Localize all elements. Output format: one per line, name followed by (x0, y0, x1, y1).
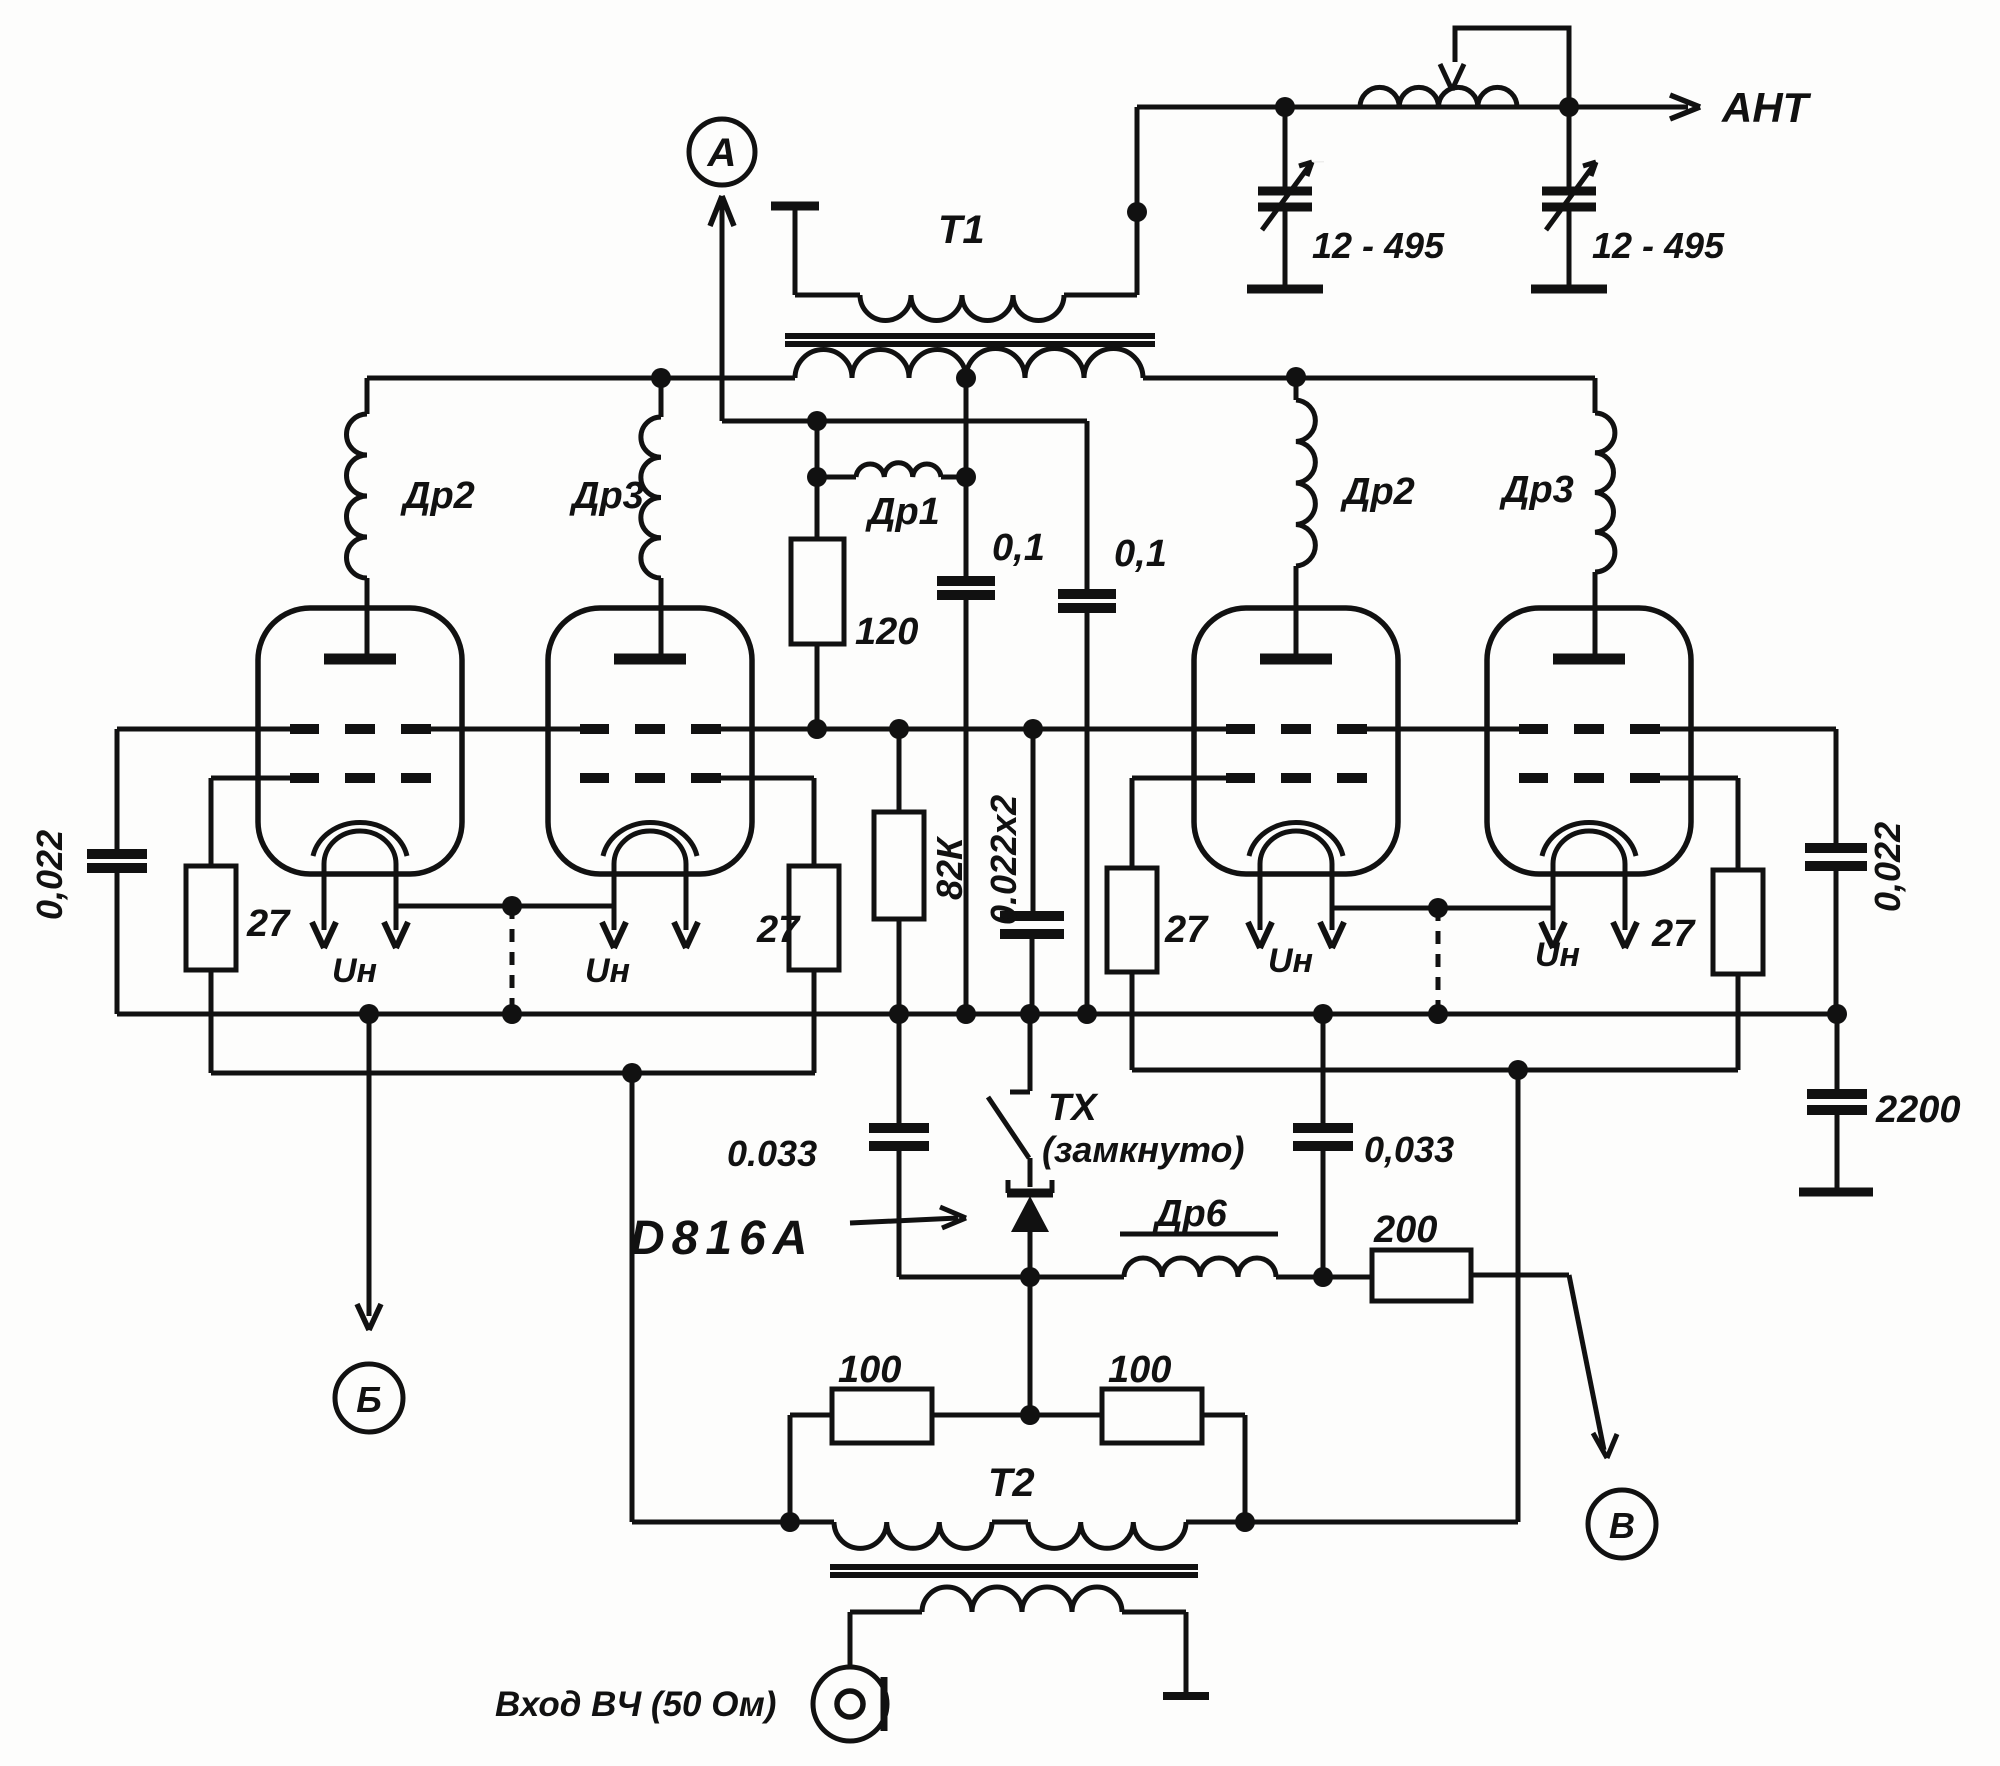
0,1 second value (1114, 533, 1167, 575)
svg-text:В: В (1609, 1505, 1635, 1546)
coax input connector (813, 1667, 887, 1741)
svg-text:100: 100 (838, 1349, 901, 1391)
svg-text:0,1: 0,1 (1114, 533, 1167, 575)
node T1 center tap (956, 368, 976, 388)
choke Dr1 (817, 463, 966, 477)
junction bus x1438 (1428, 1004, 1448, 1024)
svg-text:D816А: D816А (630, 1212, 814, 1265)
capacitor 0.033 left (869, 1014, 929, 1277)
T2 core (830, 1567, 1198, 1575)
tube V2 control grid (580, 724, 721, 734)
0.033 left value (727, 1133, 817, 1174)
wire cathode bus left (211, 1071, 815, 1076)
svg-text:Б: Б (356, 1379, 382, 1420)
svg-text:Uн: Uн (1268, 942, 1313, 980)
node antenna C1 tap (1275, 97, 1295, 117)
0,1 first value (992, 527, 1045, 569)
node cathode bus left (622, 1063, 642, 1083)
transformer T1 secondary winding (795, 349, 1143, 379)
choke Dr6 (1124, 1258, 1276, 1277)
svg-text:200: 200 (1373, 1209, 1437, 1251)
wire control grid bus (117, 727, 1836, 732)
resistor 100 #2 (1102, 1389, 1202, 1443)
TX label (1048, 1087, 1099, 1129)
node grid 82K (889, 719, 909, 739)
choke Dr2 left (347, 378, 368, 654)
node Dr3 left tap (651, 368, 671, 388)
D816A arrow (850, 1207, 966, 1228)
27 #2 value (756, 909, 801, 951)
Dr6 label (1120, 1193, 1278, 1235)
wire T2 right to riser (1245, 1070, 1518, 1522)
svg-text:Др6: Др6 (1152, 1193, 1228, 1235)
resistor 27 #1 (186, 866, 236, 1073)
27 #4 value (1651, 913, 1696, 955)
wire T1 primary left step (795, 293, 860, 298)
resistor 27 #4 (1713, 870, 1763, 1070)
node heater link right (1428, 898, 1448, 918)
node 0,033 right bottom (1313, 1267, 1333, 1287)
200 value (1373, 1209, 1437, 1251)
svg-text:27: 27 (1651, 913, 1696, 955)
T2 label (988, 1461, 1035, 1505)
node grid 120 (807, 719, 827, 739)
choke Dr2 right (1296, 375, 1315, 654)
tube V2 envelope (548, 608, 752, 874)
Un label V3 (1268, 942, 1313, 980)
ground 2200 (1799, 1188, 1873, 1197)
svg-text:12 - 495: 12 - 495 (1312, 225, 1445, 266)
junction bus x1030 (1020, 1004, 1040, 1024)
resistor 27 #2 (789, 866, 839, 1073)
82K value (929, 835, 970, 900)
wire left riser to T2 (632, 1073, 790, 1522)
capacitor 0,1 first (937, 477, 995, 1014)
capacitor 0,033 right (1293, 1014, 1353, 1277)
wire heater tap left dashed (510, 906, 515, 1014)
wire Dr1 drop (815, 421, 820, 477)
svg-text:А: А (707, 131, 737, 175)
tube V2 screen grid (580, 773, 721, 783)
capacitor 0,022 right (1805, 729, 1867, 1014)
junction bus x966 (956, 1004, 976, 1024)
ground C1 (1247, 285, 1323, 294)
node B (1588, 1490, 1656, 1558)
svg-text:0,022: 0,022 (29, 830, 70, 920)
Dr3 right label (1499, 469, 1574, 511)
wire screen V4 (1660, 778, 1738, 870)
Un label V4 (1535, 936, 1580, 974)
ground C2 (1531, 285, 1607, 294)
0.022x2 value (983, 795, 1024, 925)
svg-text:ТХ: ТХ (1048, 1087, 1099, 1129)
svg-text:Вход ВЧ (50 Ом): Вход ВЧ (50 Ом) (495, 1685, 776, 1724)
wire screen V2 (721, 778, 814, 866)
0,022 right value (1867, 822, 1908, 912)
wire screen V3 (1132, 778, 1226, 868)
svg-text:0.033: 0.033 (727, 1133, 817, 1174)
wire heater link left (396, 904, 614, 909)
variable capacitor C2 12-495 (1542, 107, 1596, 287)
tube V3 electrodes (1248, 578, 1344, 948)
wire node A arrow (710, 196, 734, 421)
tube V4 electrodes (1541, 578, 1637, 948)
tube V3 screen grid (1226, 773, 1367, 783)
Dr1 label (865, 491, 940, 533)
junction bus x899 (889, 1004, 909, 1024)
wire diode to T2 tap (1028, 1277, 1033, 1415)
svg-text:12 - 495: 12 - 495 (1592, 225, 1725, 266)
wire screen V1 (211, 778, 290, 866)
resistor 200 (1372, 1250, 1569, 1301)
node Dr2 right tap (1286, 367, 1306, 387)
svg-text:27: 27 (756, 909, 801, 951)
svg-text:2200: 2200 (1875, 1089, 1961, 1131)
capacitor 0,1 second (1058, 421, 1116, 1014)
node anode feed Dr1 (807, 411, 827, 431)
wire 100#2 right (1202, 1415, 1245, 1522)
tube V2 electrodes (602, 578, 698, 948)
wire to node B (1569, 1275, 1617, 1458)
wire between 100s (932, 1413, 1102, 1418)
wire to node B2 (357, 1014, 381, 1330)
27 #1 value (246, 903, 291, 945)
svg-text:Uн: Uн (585, 952, 630, 990)
resistor 82K (874, 729, 924, 1014)
TX state label (1042, 1129, 1245, 1170)
svg-text:Др1: Др1 (865, 491, 940, 533)
wire T2 left up (790, 1415, 832, 1522)
svg-text:Др2: Др2 (1340, 471, 1415, 513)
svg-text:0.022х2: 0.022х2 (983, 795, 1024, 925)
svg-text:120: 120 (855, 611, 918, 653)
wire Dr6 to 200 (1276, 1275, 1372, 1280)
transformer T1 primary top terminal (771, 206, 819, 295)
switch TX (988, 1014, 1030, 1187)
transformer T2 primary (790, 1522, 1245, 1548)
svg-text:АНТ: АНТ (1721, 84, 1812, 131)
capacitor 0.022x2 (1000, 729, 1064, 1014)
svg-text:27: 27 (246, 903, 291, 945)
Un label V1 (332, 952, 377, 990)
node B2 Russian (335, 1364, 403, 1432)
node T1 top right (1127, 202, 1147, 222)
tube V1 electrodes (312, 578, 408, 948)
choke Dr3 right (1595, 378, 1615, 654)
node diode T2 tap (1020, 1405, 1040, 1425)
D816A label (630, 1212, 814, 1265)
junction bus x1837 (1827, 1004, 1847, 1024)
arrow to ANT (1670, 95, 1700, 119)
27 #3 value (1164, 909, 1209, 951)
tube V1 screen grid (290, 773, 431, 783)
node antenna C2 tap (1559, 97, 1579, 117)
wire antenna line (1137, 105, 1688, 110)
120 value (855, 611, 918, 653)
wire heater link right (1332, 906, 1553, 911)
svg-text:Т1: Т1 (938, 208, 985, 252)
svg-text:100: 100 (1108, 1349, 1171, 1391)
2200 value (1875, 1089, 1961, 1131)
junction bus x1323 (1313, 1004, 1333, 1024)
svg-text:Uн: Uн (1535, 936, 1580, 974)
junction bus x512 (502, 1004, 522, 1024)
T1 core (785, 336, 1155, 344)
input label (495, 1685, 776, 1724)
0,022 left value (29, 830, 70, 920)
T1 label (938, 208, 985, 252)
variable inductor L1 (1360, 87, 1517, 107)
wire top bus right (1143, 376, 1595, 381)
svg-text:0,1: 0,1 (992, 527, 1045, 569)
wire anode feed horizontal (722, 419, 1087, 424)
tube V4 envelope (1487, 608, 1691, 874)
transformer T1 primary winding (860, 295, 1064, 321)
svg-text:(замкнуто): (замкнуто) (1042, 1129, 1245, 1170)
wire cathode bus right (1132, 1068, 1738, 1073)
node diode bottom (1020, 1267, 1040, 1287)
capacitor 0,022 left (87, 729, 147, 1014)
100 #1 value (838, 1349, 901, 1391)
tube V4 screen grid (1519, 773, 1660, 783)
variable capacitor C1 12-495 (1258, 107, 1324, 287)
svg-text:Др3: Др3 (1499, 469, 1574, 511)
resistor 100 #1 (832, 1389, 932, 1443)
node grid 0022k2 (1023, 719, 1043, 739)
tube V4 control grid (1519, 724, 1660, 734)
wire main bus (117, 1012, 1837, 1017)
junction bus x369 (359, 1004, 379, 1024)
Un label V2 (585, 952, 630, 990)
0,033 right value (1364, 1129, 1454, 1170)
choke Dr3 left (641, 378, 661, 654)
svg-text:27: 27 (1164, 909, 1209, 951)
tube V1 control grid (290, 724, 431, 734)
tube V1 envelope (258, 608, 462, 874)
capacitor 2200 (1807, 1014, 1867, 1190)
wire T1 primary right (1064, 107, 1137, 295)
100 #2 value (1108, 1349, 1171, 1391)
variable inductor wiper bracket (1440, 28, 1569, 103)
tube V3 control grid (1226, 724, 1367, 734)
node cathode bus right (1508, 1060, 1528, 1080)
node T2 left (780, 1512, 800, 1532)
transformer T2 secondary (850, 1587, 1186, 1694)
node Dr1 right (956, 467, 976, 487)
wire center tap drop (964, 378, 969, 477)
wire heater tap right dashed (1436, 908, 1441, 1014)
node T2 right (1235, 1512, 1255, 1532)
node heater link left (502, 896, 522, 916)
ANT label (1721, 84, 1812, 131)
C2 value (1592, 225, 1725, 266)
svg-text:Uн: Uн (332, 952, 377, 990)
svg-text:Др2: Др2 (400, 475, 475, 517)
tube V3 envelope (1194, 608, 1398, 874)
C1 value (1312, 225, 1445, 266)
svg-text:0,033: 0,033 (1364, 1129, 1454, 1170)
ground T2 (1163, 1692, 1209, 1700)
Dr2 left label (400, 475, 475, 517)
wire diode row left (899, 1275, 1124, 1280)
diode D816A (1007, 1180, 1053, 1277)
junction bus x1087 (1077, 1004, 1097, 1024)
svg-text:0,022: 0,022 (1867, 822, 1908, 912)
node Dr1 left (807, 467, 827, 487)
svg-text:Т2: Т2 (988, 1461, 1035, 1505)
Dr3 left label (569, 475, 644, 517)
Dr2 right label (1340, 471, 1415, 513)
svg-text:Др3: Др3 (569, 475, 644, 517)
svg-text:82К: 82К (929, 835, 970, 900)
resistor 120 (791, 477, 844, 729)
node A (689, 119, 755, 185)
resistor 27 #3 (1107, 868, 1157, 1070)
wire top bus left (367, 376, 795, 381)
